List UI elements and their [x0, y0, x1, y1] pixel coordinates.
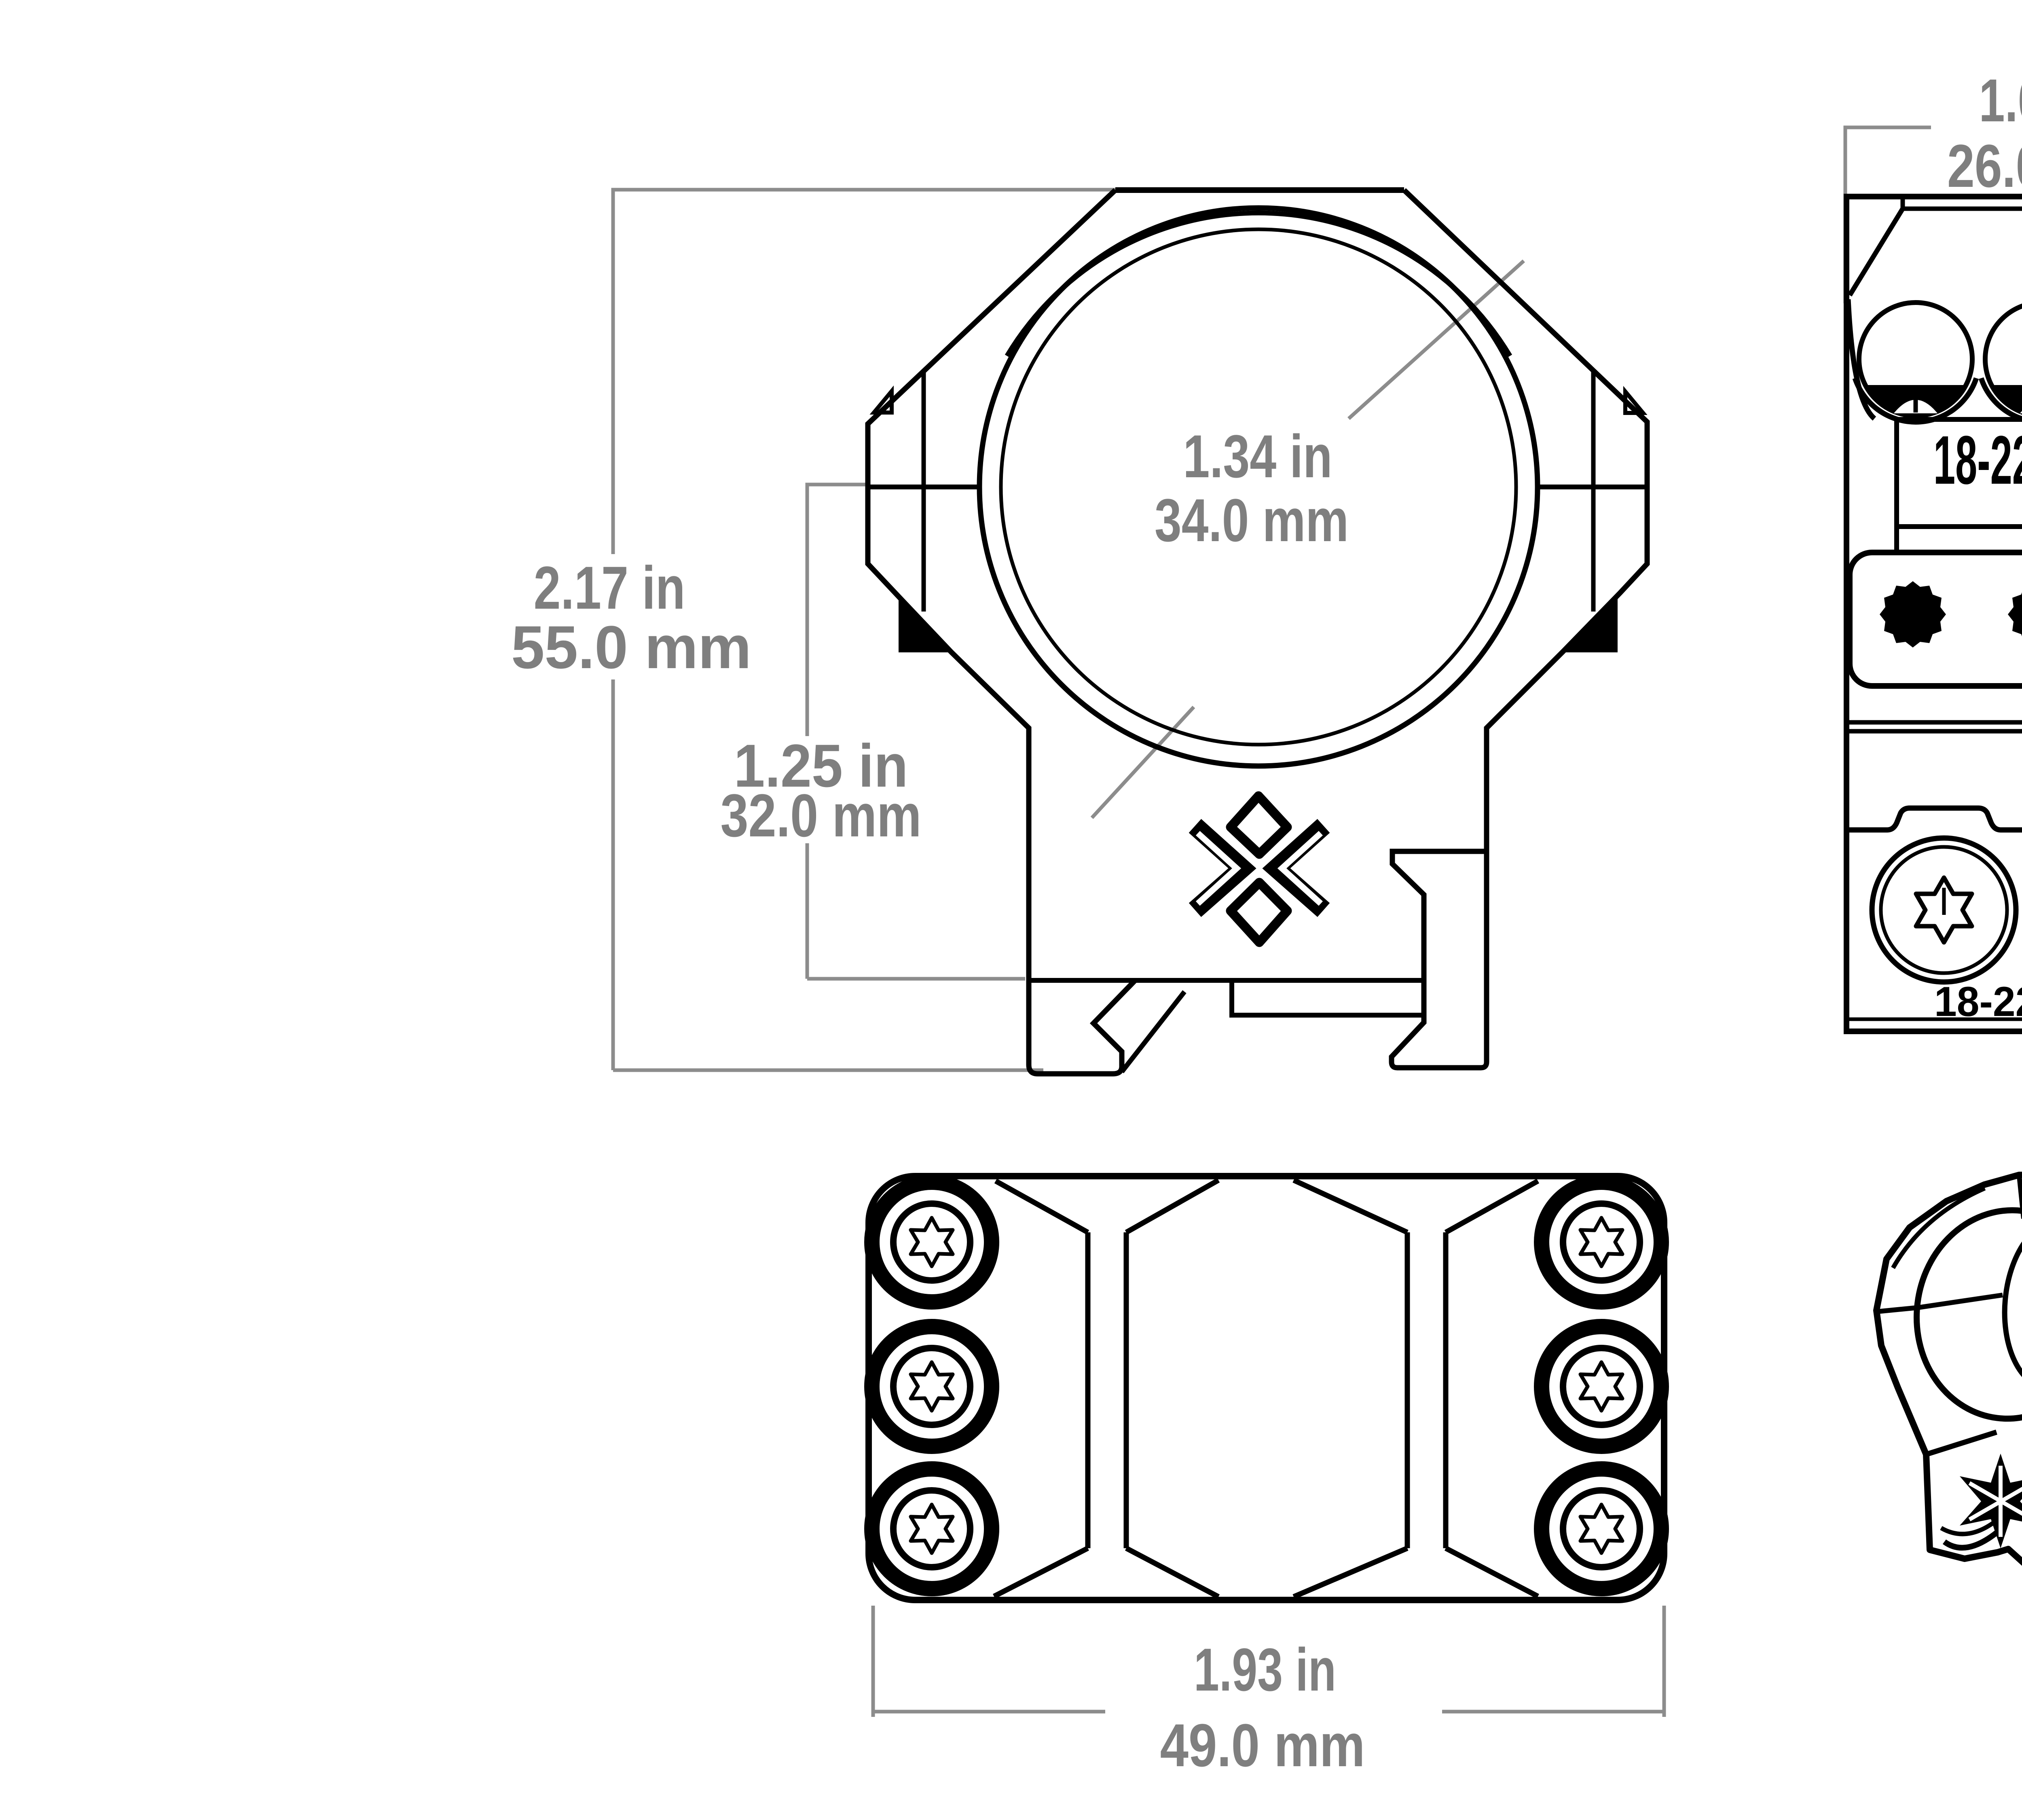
band side verticals — [1897, 417, 2022, 552]
dimension 1.93in/49.0mm bracket — [873, 1606, 1664, 1717]
torx screw left (filled) — [1880, 581, 1946, 648]
svg-text:1.02 in: 1.02 in — [1979, 66, 2022, 134]
torx screw middle (filled) — [2008, 581, 2022, 648]
right ear top serration notch — [1625, 392, 1643, 413]
screw seat fills and slot ticks — [1865, 385, 1966, 415]
rail top surface line — [1029, 978, 1424, 983]
saddle center bottom slants — [1126, 1548, 1407, 1597]
screw A2 rings — [872, 1327, 992, 1446]
vortex logo bottom diamond — [1231, 882, 1287, 942]
rail slot recess lines — [1232, 980, 1424, 1015]
svg-text:26.0 mm: 26.0 mm — [1947, 132, 2022, 200]
scope bore inner circle — [1001, 229, 1516, 745]
iso outer silhouette — [1876, 1175, 2022, 1589]
iso vortex logo star — [1960, 1454, 2022, 1548]
cap screw hole circle left — [1859, 303, 1972, 416]
bottom inner line — [1846, 1018, 2022, 1021]
vortex logo top diamond — [1231, 796, 1287, 854]
left clamp serration wedge (filled) — [899, 599, 951, 652]
body outline right: chamfer, ear, clamp slants to stem — [1404, 190, 1647, 851]
left ear top serration notch — [874, 391, 892, 413]
stem left edge down to foot — [1029, 728, 1135, 1074]
svg-text:49.0 mm: 49.0 mm — [1160, 1711, 1365, 1779]
rail left dovetail slant — [1122, 992, 1184, 1072]
clamp middle rounded rectangle — [1850, 552, 2022, 686]
saddle right waist lines — [1407, 1232, 1446, 1548]
iso foot crescent notch — [1944, 1530, 1999, 1548]
saddle left bottom slant — [994, 1548, 1088, 1596]
screw B1 rings — [1542, 1182, 1661, 1302]
diameter 1.34in leader line lower — [1092, 707, 1194, 818]
left octagon flat edge line — [922, 370, 926, 612]
saddle left waist lines — [1088, 1232, 1126, 1548]
iso bore inner ellipse — [1998, 1216, 2022, 1393]
saddle left outer slant — [996, 1181, 1088, 1232]
scope bore outer circle — [979, 208, 1538, 766]
svg-text:2.17 in: 2.17 in — [534, 554, 685, 622]
body outline left: chamfer, ear, clamp slants to stem — [868, 190, 1115, 980]
diameter 1.34in leader line upper — [1349, 261, 1524, 419]
svg-text:1.93 in: 1.93 in — [1194, 1636, 1336, 1704]
screw B2 rings — [1542, 1327, 1661, 1446]
saddle center top slants — [1126, 1180, 1407, 1232]
screw B3 rings — [1542, 1469, 1661, 1589]
iso bore front rim ellipse — [1905, 1200, 2022, 1429]
iso stem bottom curve — [1926, 1432, 1997, 1454]
ring cap outer arc — [1007, 213, 1510, 356]
base screw left outer circle — [1872, 838, 2016, 982]
torque band bottom line — [1897, 524, 2022, 529]
side body outer rectangle — [1846, 197, 2022, 1031]
vortex logo right chevron — [1276, 826, 1324, 910]
right clamp serration wedge (filled) — [1565, 599, 1618, 652]
svg-text:18-22 in/lbs: 18-22 in/lbs — [1933, 422, 2022, 499]
cradle left connector — [1848, 299, 1874, 419]
base screw left torx outline — [1916, 878, 1972, 942]
svg-text:1.34 in: 1.34 in — [1183, 422, 1332, 490]
svg-text:34.0 mm: 34.0 mm — [1155, 486, 1349, 554]
right clamp block outline — [1392, 851, 1487, 1068]
right octagon flat edge line — [1591, 370, 1596, 612]
torque band top line — [1897, 417, 2022, 422]
screw A1 rings — [872, 1182, 992, 1302]
lower body split lines — [1846, 722, 2022, 731]
saddle right outer slant — [1446, 1181, 1538, 1232]
iso cap seam vertical — [2019, 1176, 2022, 1219]
base boss wavy top line — [1846, 808, 2022, 830]
dimension 2.17in/55.0mm leader lines — [613, 190, 1115, 1070]
saddle right bottom slant — [1446, 1548, 1538, 1596]
body top edge — [1115, 187, 1404, 193]
scalloped cradle under screw holes — [1855, 378, 2022, 422]
ring split line left segment — [868, 485, 981, 489]
cap screw hole circle middle — [1985, 303, 2022, 416]
svg-text:32.0 mm: 32.0 mm — [721, 781, 922, 849]
top inner strip line with end stubs — [1903, 197, 2022, 209]
iso cap chamfer inner line top-left — [1893, 1188, 1985, 1268]
top view body rounded rectangle — [869, 1176, 1664, 1600]
left shoulder slant — [1850, 209, 1903, 295]
dimension 1.25in/32.0mm leader lines — [807, 485, 1025, 979]
svg-text:55.0 mm: 55.0 mm — [511, 613, 751, 681]
screw A3 rings — [872, 1469, 992, 1589]
ring split line right segment — [1537, 485, 1647, 489]
iso ring split line left — [1877, 1295, 2003, 1312]
dimension 1.02in/26.0mm bracket — [1845, 127, 2022, 303]
vortex logo left chevron — [1195, 826, 1242, 910]
